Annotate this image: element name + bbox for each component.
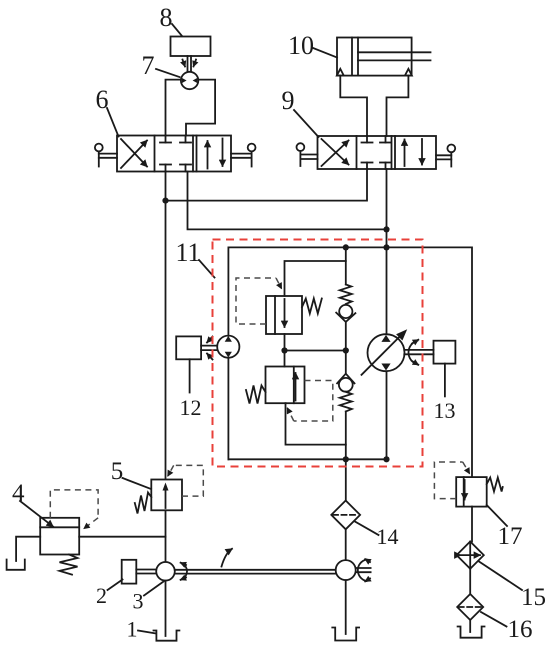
svg-text:1: 1 [127,617,138,642]
svg-text:15: 15 [521,584,546,611]
svg-text:17: 17 [498,523,523,550]
svg-text:14: 14 [377,524,399,549]
svg-text:13: 13 [434,398,456,423]
svg-text:5: 5 [111,458,124,485]
svg-text:4: 4 [12,480,25,507]
svg-text:2: 2 [96,583,107,608]
svg-text:3: 3 [133,589,144,614]
svg-text:11: 11 [175,238,200,267]
svg-text:16: 16 [508,616,533,643]
svg-text:10: 10 [288,31,314,60]
svg-text:9: 9 [282,86,295,115]
svg-text:6: 6 [96,85,109,114]
svg-text:7: 7 [142,51,155,80]
svg-text:12: 12 [180,395,202,420]
svg-text:8: 8 [160,3,173,32]
